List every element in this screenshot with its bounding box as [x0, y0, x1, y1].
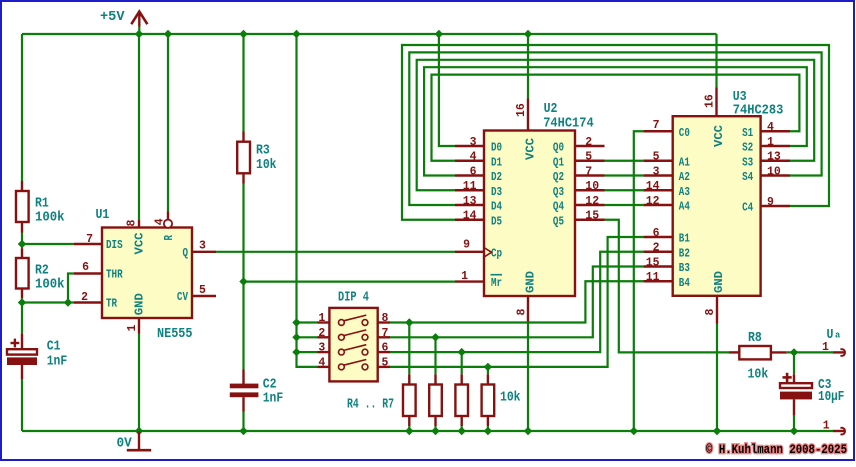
pin C1 top lead: [21, 334, 23, 349]
junction U3 GND / 0V rail: [713, 427, 721, 435]
pin R6 top lead: [461, 374, 463, 384]
pin U1 DIS stub: [74, 243, 103, 245]
svg-text:16: 16: [703, 94, 717, 108]
junction C0 line / 0V rail: [630, 427, 638, 435]
svg-text:3: 3: [318, 341, 325, 355]
pin U2 GND stub: [527, 296, 529, 324]
junction Ua / C3: [790, 348, 798, 356]
wire Q4 to A4: [605, 204, 644, 206]
junction 0V / ground symbol: [135, 427, 143, 435]
svg-text:S4: S4: [742, 170, 753, 184]
svg-text:100k: 100k: [35, 277, 65, 293]
pin 0V connector stub: [833, 430, 845, 432]
pin R1 bottom lead: [21, 222, 23, 233]
svg-text:1: 1: [823, 419, 830, 433]
svg-text:DIP 4: DIP 4: [338, 289, 369, 305]
wire DIP pin 2 feed: [297, 336, 318, 338]
pin Q1 stub: [575, 160, 605, 162]
pin S3 stub: [761, 160, 790, 162]
svg-text:R4 .. R7: R4 .. R7: [347, 396, 394, 412]
svg-text:VCC: VCC: [133, 233, 147, 255]
pin U1 CV stub: [192, 295, 216, 297]
wire feedback S4 to D4: [409, 52, 821, 205]
wire U1 VCC to +5V: [138, 34, 140, 219]
svg-text:100k: 100k: [35, 210, 65, 226]
svg-text:8: 8: [515, 309, 529, 316]
connector pad Ua: [840, 349, 845, 356]
svg-text:0V: 0V: [117, 436, 133, 452]
pin U2 Cp stub: [455, 251, 484, 253]
svg-text:A2: A2: [679, 170, 690, 184]
junction +5V / U1 reset: [164, 30, 172, 38]
svg-text:TR: TR: [106, 297, 118, 311]
svg-text:C4: C4: [742, 201, 753, 215]
wire Q1 to A1: [605, 160, 644, 162]
svg-text:15: 15: [646, 255, 660, 269]
switch contact 1: [339, 315, 368, 325]
svg-text:3: 3: [470, 135, 477, 149]
svg-text:D3: D3: [491, 185, 502, 199]
pin U2 VCC stub: [527, 99, 529, 131]
pin S2 stub: [761, 145, 790, 147]
junction R2/TR/C1: [18, 298, 26, 306]
wire DIS net: [22, 243, 74, 245]
wire feedback S3 to D3: [417, 60, 815, 190]
pin R3 top lead: [242, 132, 244, 142]
svg-text:R: R: [162, 234, 176, 240]
svg-text:6: 6: [653, 226, 660, 240]
wire Q3 to A3: [605, 189, 644, 191]
svg-text:8: 8: [703, 309, 717, 316]
svg-text:1nF: 1nF: [263, 391, 284, 407]
svg-text:A4: A4: [679, 200, 690, 214]
svg-text:10: 10: [767, 164, 781, 178]
wire Q5 to output node: [605, 220, 730, 353]
junction R5 top: [431, 333, 439, 341]
pin R1 top lead: [21, 181, 23, 191]
svg-text:4: 4: [318, 356, 325, 370]
junction C3 / 0V rail: [790, 427, 798, 435]
pin R8 right lead: [771, 351, 787, 353]
svg-text:11: 11: [646, 270, 660, 284]
wire DIP 5 to B1: [390, 237, 643, 367]
wire R6 top: [461, 352, 463, 374]
wire U2 GND to 0V: [527, 324, 529, 432]
svg-text:3: 3: [653, 164, 660, 178]
wire R8 to Ua pin: [787, 351, 833, 353]
svg-text:16: 16: [514, 103, 528, 117]
pin D2 stub: [455, 174, 484, 176]
resistor R4: [403, 385, 416, 417]
pin R2 bottom lead: [21, 289, 23, 299]
pin DIP 6 stub: [378, 351, 390, 353]
svg-text:C1: C1: [47, 339, 61, 355]
svg-text:CV: CV: [177, 290, 189, 304]
pin C4 stub: [761, 205, 790, 207]
pin R2 top lead: [21, 248, 23, 258]
wire Q2 to A2: [605, 174, 644, 176]
capacitor C1 negative plate: [7, 357, 37, 365]
svg-text:VCC: VCC: [524, 138, 538, 160]
pin U1 GND stub: [138, 318, 140, 334]
pin R6 bottom lead: [461, 416, 463, 426]
junction DIP common row 3: [292, 348, 300, 356]
wire R3 to C2 (reset node): [242, 184, 244, 370]
resistor R3: [237, 142, 250, 174]
svg-text:U: U: [827, 327, 834, 343]
pin DIP 5 stub: [378, 366, 390, 368]
pin U3 VCC stub: [715, 88, 717, 117]
pin C3 bottom lead: [793, 399, 795, 415]
svg-text:8: 8: [382, 311, 389, 325]
svg-text:2: 2: [585, 135, 592, 149]
svg-text:5: 5: [382, 356, 389, 370]
svg-text:Q: Q: [183, 246, 189, 260]
junction +5V / D0 tie-high: [435, 30, 443, 38]
pin DIP 4 stub: [318, 366, 330, 368]
wire R4 bottom: [408, 426, 410, 431]
svg-text:5: 5: [585, 150, 592, 164]
svg-text:1: 1: [767, 135, 774, 149]
svg-text:8: 8: [125, 220, 139, 227]
wire C0 to 0V: [634, 131, 643, 431]
pin S1 stub: [761, 130, 790, 132]
junction U2 GND / 0V rail: [524, 427, 532, 435]
svg-text:10µF: 10µF: [818, 389, 844, 405]
wire output node to C3: [793, 352, 795, 374]
wire R7 top: [487, 367, 489, 374]
svg-text:1: 1: [318, 311, 325, 325]
svg-text:D5: D5: [491, 214, 502, 228]
svg-text:10k: 10k: [748, 366, 769, 382]
overline for Mr: [491, 274, 503, 276]
wire U1 reset to +5V: [167, 34, 169, 212]
svg-text:a: a: [835, 330, 840, 341]
connector pad 0V: [840, 428, 845, 435]
svg-text:Cp: Cp: [491, 246, 502, 260]
svg-text:GND: GND: [712, 271, 726, 293]
svg-text:6: 6: [382, 341, 389, 355]
wire C3 to 0V rail: [793, 416, 795, 431]
capacitor C2 bottom plate: [230, 392, 259, 397]
pin DIP 2 stub: [318, 336, 330, 338]
wire C2 to 0V rail: [242, 412, 244, 432]
svg-text:B3: B3: [679, 261, 690, 275]
wire R1-R2 node: [21, 233, 23, 249]
pin DIP 1 stub: [318, 321, 330, 323]
svg-text:Q4: Q4: [553, 200, 564, 214]
junction +5V / DIP common: [292, 30, 300, 38]
wire DIP 8 to B4: [390, 281, 643, 322]
wire C1 to 0V rail: [21, 379, 23, 431]
svg-text:5: 5: [653, 150, 660, 164]
capacitor C3 negative plate: [780, 392, 812, 400]
pin R3 bottom lead: [242, 173, 244, 183]
wire +5V rail drop to U3 VCC: [715, 34, 717, 88]
resistor R1: [16, 191, 29, 222]
svg-text:Q0: Q0: [553, 141, 564, 155]
junction R4 / 0V rail: [405, 427, 413, 435]
pin C2 bottom lead: [242, 397, 244, 411]
capacitor C1 positive plate: [7, 349, 37, 354]
junction R1/R2/DIS: [18, 240, 26, 248]
wire R4 top: [408, 323, 410, 375]
wire +5V rail: [22, 33, 717, 35]
svg-text:D0: D0: [491, 141, 502, 155]
svg-text:D4: D4: [491, 200, 502, 214]
svg-text:GND: GND: [133, 293, 147, 315]
svg-text:Q2: Q2: [553, 170, 564, 184]
pin B3 stub: [643, 265, 673, 267]
svg-text:3: 3: [199, 238, 206, 252]
junction +5V / U2 VCC: [524, 30, 532, 38]
wire R5 bottom: [434, 426, 436, 431]
pin U1 R stub: [167, 212, 169, 220]
svg-text:4: 4: [153, 218, 167, 225]
svg-text:7: 7: [653, 118, 660, 132]
svg-text:S2: S2: [742, 141, 753, 155]
wire TR net: [22, 301, 74, 303]
resistor R6: [455, 385, 468, 417]
svg-text:B4: B4: [679, 276, 690, 290]
pin C2 top lead: [242, 370, 244, 385]
wire U3 GND to 0V: [716, 324, 718, 432]
junction R4 top: [405, 318, 413, 326]
junction R6 / 0V rail: [458, 427, 466, 435]
inversion bubble U1 R pin: [164, 220, 172, 228]
pin U1 TR stub: [74, 301, 103, 303]
pin U1 THR stub: [74, 272, 103, 274]
pin Ua connector stub: [833, 351, 845, 353]
wire +5V down to R1: [21, 34, 23, 181]
svg-text:THR: THR: [106, 268, 123, 282]
svg-text:12: 12: [585, 194, 599, 208]
svg-text:VCC: VCC: [712, 125, 726, 147]
junction R6 top: [458, 348, 466, 356]
wire 0V rail: [22, 430, 833, 432]
svg-text:74HC174: 74HC174: [543, 115, 594, 131]
op-amp U1 NE555 body: [102, 228, 192, 319]
pin Q5 stub: [575, 219, 605, 221]
wire D0 tie to +5V: [439, 34, 455, 146]
wire +5V down to R3: [242, 34, 244, 132]
junction R7 top: [484, 363, 492, 371]
pin DIP 3 stub: [318, 351, 330, 353]
svg-text:S3: S3: [742, 155, 753, 169]
junction C2 / 0V rail: [239, 427, 247, 435]
switch contact 3: [339, 345, 368, 355]
pin A1 stub: [643, 160, 673, 162]
junction R5 / 0V rail: [431, 427, 439, 435]
pin U1 VCC stub: [138, 219, 140, 227]
svg-text:B2: B2: [679, 246, 690, 260]
pin DIP 8 stub: [378, 321, 390, 323]
wire DIP pin 3 feed: [297, 351, 318, 353]
pin R7 top lead: [487, 374, 489, 384]
pin U2 Mr stub: [455, 280, 484, 282]
pin Q0 stub: [575, 145, 605, 147]
svg-text:NE555: NE555: [157, 326, 193, 342]
svg-text:14: 14: [463, 209, 477, 223]
svg-text:11: 11: [463, 179, 477, 193]
svg-text:13: 13: [767, 150, 781, 164]
pin R4 top lead: [408, 374, 410, 384]
pin R5 top lead: [434, 374, 436, 384]
svg-text:10k: 10k: [256, 157, 277, 173]
svg-text:12: 12: [646, 194, 660, 208]
svg-text:15: 15: [585, 209, 599, 223]
ground symbol 0V: [127, 431, 151, 450]
capacitor C3 plus sign: [783, 373, 792, 382]
pin A4 stub: [643, 204, 673, 206]
resistor R7: [482, 385, 495, 417]
svg-text:D1: D1: [491, 155, 502, 169]
svg-text:14: 14: [646, 179, 660, 193]
pin S4 stub: [761, 174, 790, 176]
pin Q2 stub: [575, 174, 605, 176]
svg-text:R8: R8: [748, 330, 762, 346]
pin A3 stub: [643, 189, 673, 191]
svg-text:U1: U1: [96, 207, 110, 223]
junction R7 / 0V rail: [484, 427, 492, 435]
svg-text:1: 1: [125, 325, 139, 332]
pin DIP 7 stub: [378, 336, 390, 338]
pin R7 bottom lead: [487, 416, 489, 426]
wire +5V down to DIP common: [297, 34, 318, 367]
svg-text:10k: 10k: [500, 390, 521, 406]
svg-text:4: 4: [470, 150, 477, 164]
svg-text:Q5: Q5: [553, 214, 564, 228]
resistor R5: [429, 385, 442, 417]
svg-text:74HC283: 74HC283: [733, 103, 784, 119]
wire Q to Cp (clock net): [216, 251, 455, 253]
wire DIP 6 to B2: [390, 252, 643, 352]
junction +5V / R3: [239, 30, 247, 38]
wire feedback S1 to D1: [432, 75, 800, 161]
switch DIP 4 body: [329, 308, 377, 382]
resistor R8: [739, 346, 771, 359]
svg-text:Q3: Q3: [553, 185, 564, 199]
svg-text:6: 6: [82, 260, 89, 274]
pin D4 stub: [455, 204, 484, 206]
svg-text:Q1: Q1: [553, 155, 564, 169]
pin R4 bottom lead: [408, 416, 410, 426]
pin Q4 stub: [575, 204, 605, 206]
svg-text:7: 7: [382, 326, 389, 340]
svg-text:7: 7: [585, 164, 592, 178]
U2 74HC174 body: [484, 131, 575, 297]
svg-text:S1: S1: [742, 126, 753, 140]
resistor R2: [16, 258, 29, 289]
junction TR/THR branch: [64, 298, 72, 306]
pin R8 left lead: [729, 351, 739, 353]
wire U1 GND to 0V: [138, 334, 140, 432]
switch contact 2: [339, 330, 368, 340]
U3 74HC283 body: [673, 116, 761, 296]
capacitor C1 plus sign: [11, 339, 20, 348]
clock triangle at Cp: [484, 248, 492, 258]
junction reset node / Mr wire: [239, 277, 247, 285]
svg-text:9: 9: [463, 237, 470, 251]
power symbol +5V arrow: [131, 12, 147, 34]
svg-text:2: 2: [653, 241, 660, 255]
svg-text:10: 10: [585, 179, 599, 193]
svg-text:4: 4: [767, 120, 774, 134]
wire R7 bottom: [487, 426, 489, 431]
pin U1 Q stub: [192, 251, 216, 253]
svg-text:D2: D2: [491, 170, 502, 184]
svg-text:GND: GND: [524, 271, 538, 293]
wire DIP 7 to B3: [390, 267, 643, 338]
pin B4 stub: [643, 280, 673, 282]
pin D0 stub: [455, 145, 484, 147]
pin Q3 stub: [575, 189, 605, 191]
pin D3 stub: [455, 189, 484, 191]
wire U2 VCC to +5V: [527, 34, 529, 99]
pin D5 stub: [455, 219, 484, 221]
junction DIP common row 1: [292, 318, 300, 326]
pin B1 stub: [643, 236, 673, 238]
svg-text:C0: C0: [679, 126, 690, 140]
switch contact 4: [339, 360, 368, 370]
pin C0 stub: [643, 130, 673, 132]
svg-text:1nF: 1nF: [47, 354, 67, 370]
pin C1 bottom lead: [21, 365, 23, 379]
svg-text:A3: A3: [679, 185, 690, 199]
svg-text:6: 6: [470, 164, 477, 178]
svg-text:13: 13: [463, 194, 477, 208]
pin D1 stub: [455, 160, 484, 162]
wire R5 top: [434, 337, 436, 374]
pin R5 bottom lead: [434, 416, 436, 426]
junction DIP common row 2: [292, 333, 300, 341]
wire THR branch: [68, 274, 74, 303]
svg-text:Mr: Mr: [491, 276, 502, 290]
wire DIP pin 1 feed: [297, 321, 318, 323]
pin C3 top lead: [793, 374, 795, 383]
svg-text:5: 5: [199, 283, 206, 297]
pin B2 stub: [643, 251, 673, 253]
svg-text:B1: B1: [679, 232, 690, 246]
svg-text:2: 2: [318, 326, 325, 340]
wire Mr net: [244, 281, 456, 283]
svg-text:+5V: +5V: [100, 9, 125, 25]
wire R6 bottom: [461, 426, 463, 431]
wire feedback C4 to D5: [402, 45, 829, 220]
svg-text:DIS: DIS: [106, 238, 123, 252]
svg-text:2: 2: [81, 290, 88, 304]
svg-text:© H.Kuhlmann 2008-2025: © H.Kuhlmann 2008-2025: [706, 443, 847, 457]
svg-text:9: 9: [767, 195, 774, 209]
capacitor C3 positive plate: [780, 383, 812, 388]
svg-text:7: 7: [86, 232, 93, 246]
svg-text:1: 1: [461, 269, 468, 283]
pin U3 GND stub: [716, 296, 718, 324]
wire feedback S2 to D2: [424, 67, 807, 175]
wire R2 bottom to C1: [21, 298, 23, 334]
pin A2 stub: [643, 174, 673, 176]
junction +5V / U1 VCC: [135, 30, 143, 38]
capacitor C2 top plate: [230, 384, 259, 389]
svg-text:A1: A1: [679, 155, 690, 169]
